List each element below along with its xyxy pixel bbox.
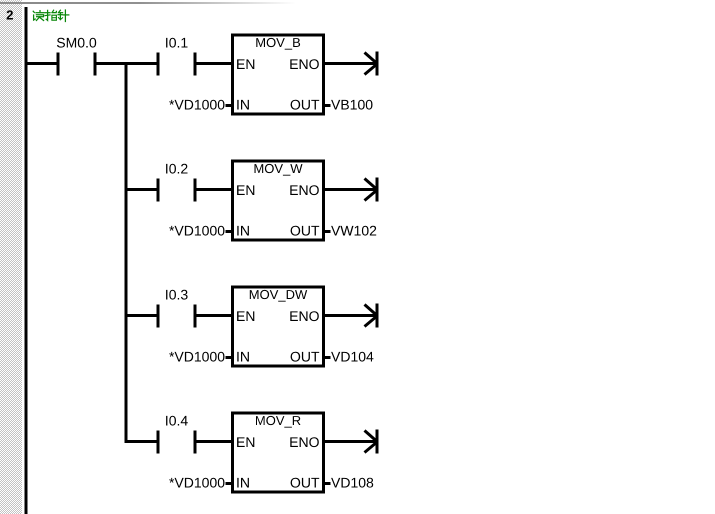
- label I0.1: [166, 38, 187, 48]
- IN stub rung3: [226, 356, 232, 359]
- arrow rung2: [376, 178, 379, 202]
- label SM0.0: [57, 38, 96, 48]
- label I0.4: [166, 416, 188, 426]
- wire I0.2 to block: [197, 188, 232, 191]
- wire I0.3 to block: [197, 314, 232, 317]
- pin ENO rung3: [290, 311, 319, 321]
- title MOV_B: [256, 38, 300, 50]
- title MOV_DW: [250, 290, 307, 302]
- block MOV_DW: [231, 286, 325, 368]
- operand *VD1000 rung1: [169, 100, 224, 110]
- pin IN rung1: [237, 100, 249, 110]
- char 指: [46, 10, 47, 20]
- pin OUT rung2: [291, 226, 320, 236]
- contact SM0.0: [57, 53, 60, 76]
- block MOV_W: [231, 160, 325, 242]
- pin ENO rung2: [290, 185, 319, 195]
- pin IN rung2: [237, 226, 249, 236]
- wire branch to I0.3: [128, 314, 157, 317]
- arrow rung3: [376, 304, 379, 328]
- pin ENO rung4: [290, 437, 319, 447]
- operand VB100: [331, 100, 372, 110]
- OUT stub rung3: [325, 356, 331, 359]
- wire rail to SM0.0: [27, 62, 57, 65]
- title MOV_W: [255, 164, 303, 176]
- OUT stub rung4: [325, 482, 331, 485]
- char 读: [33, 11, 34, 12]
- IN stub rung1: [226, 104, 232, 107]
- contact I0.2: [157, 179, 160, 202]
- label I0.2: [166, 164, 187, 174]
- operand *VD1000 rung2: [169, 226, 224, 236]
- title MOV_R: [256, 416, 301, 428]
- pin IN rung3: [237, 352, 249, 362]
- top separator line: [0, 2, 300, 4]
- IN stub rung2: [226, 230, 232, 233]
- OUT stub rung2: [325, 230, 331, 233]
- wire branch to I0.4: [125, 440, 157, 443]
- pin EN rung1: [237, 59, 254, 69]
- operand *VD1000 rung4: [169, 478, 224, 488]
- IN stub rung4: [226, 482, 232, 485]
- network number 2: [7, 10, 13, 19]
- wire SM0.0 to I0.1: [97, 62, 157, 65]
- branch line: [125, 62, 128, 443]
- operand VD108: [331, 478, 373, 488]
- pin OUT rung4: [291, 478, 320, 488]
- block MOV_B: [231, 34, 325, 116]
- pin EN rung2: [237, 185, 254, 195]
- wire ENO to arrow rung3: [325, 314, 376, 317]
- wire I0.1 to block: [197, 62, 232, 65]
- wire ENO to arrow rung2: [325, 188, 376, 191]
- wire ENO to arrow rung1: [325, 62, 376, 65]
- contact I0.4: [157, 431, 160, 454]
- block MOV_R: [231, 412, 325, 494]
- arrow rung4: [376, 430, 379, 454]
- wire branch to I0.2: [128, 188, 157, 191]
- label I0.3: [166, 290, 188, 300]
- network margin dither: [0, 0, 22, 514]
- operand *VD1000 rung3: [169, 352, 224, 362]
- pin OUT rung3: [291, 352, 320, 362]
- operand VD104: [331, 352, 373, 362]
- operand VW102: [331, 226, 376, 236]
- arrow (open line connector) rung1: [376, 52, 379, 76]
- power rail: [25, 7, 28, 514]
- contact I0.3: [157, 305, 160, 328]
- pin EN rung4: [237, 437, 254, 447]
- pin OUT rung1: [291, 100, 320, 110]
- pin ENO rung1: [290, 59, 319, 69]
- OUT stub rung1: [325, 104, 331, 107]
- wire ENO to arrow rung4: [325, 440, 376, 443]
- wire I0.4 to block: [197, 440, 232, 443]
- contact I0.1: [157, 53, 160, 76]
- pin IN rung4: [237, 478, 249, 488]
- network title 读指针 (drawn as SVG strokes): [30, 9, 72, 25]
- pin EN rung3: [237, 311, 254, 321]
- char 针: [59, 10, 61, 12]
